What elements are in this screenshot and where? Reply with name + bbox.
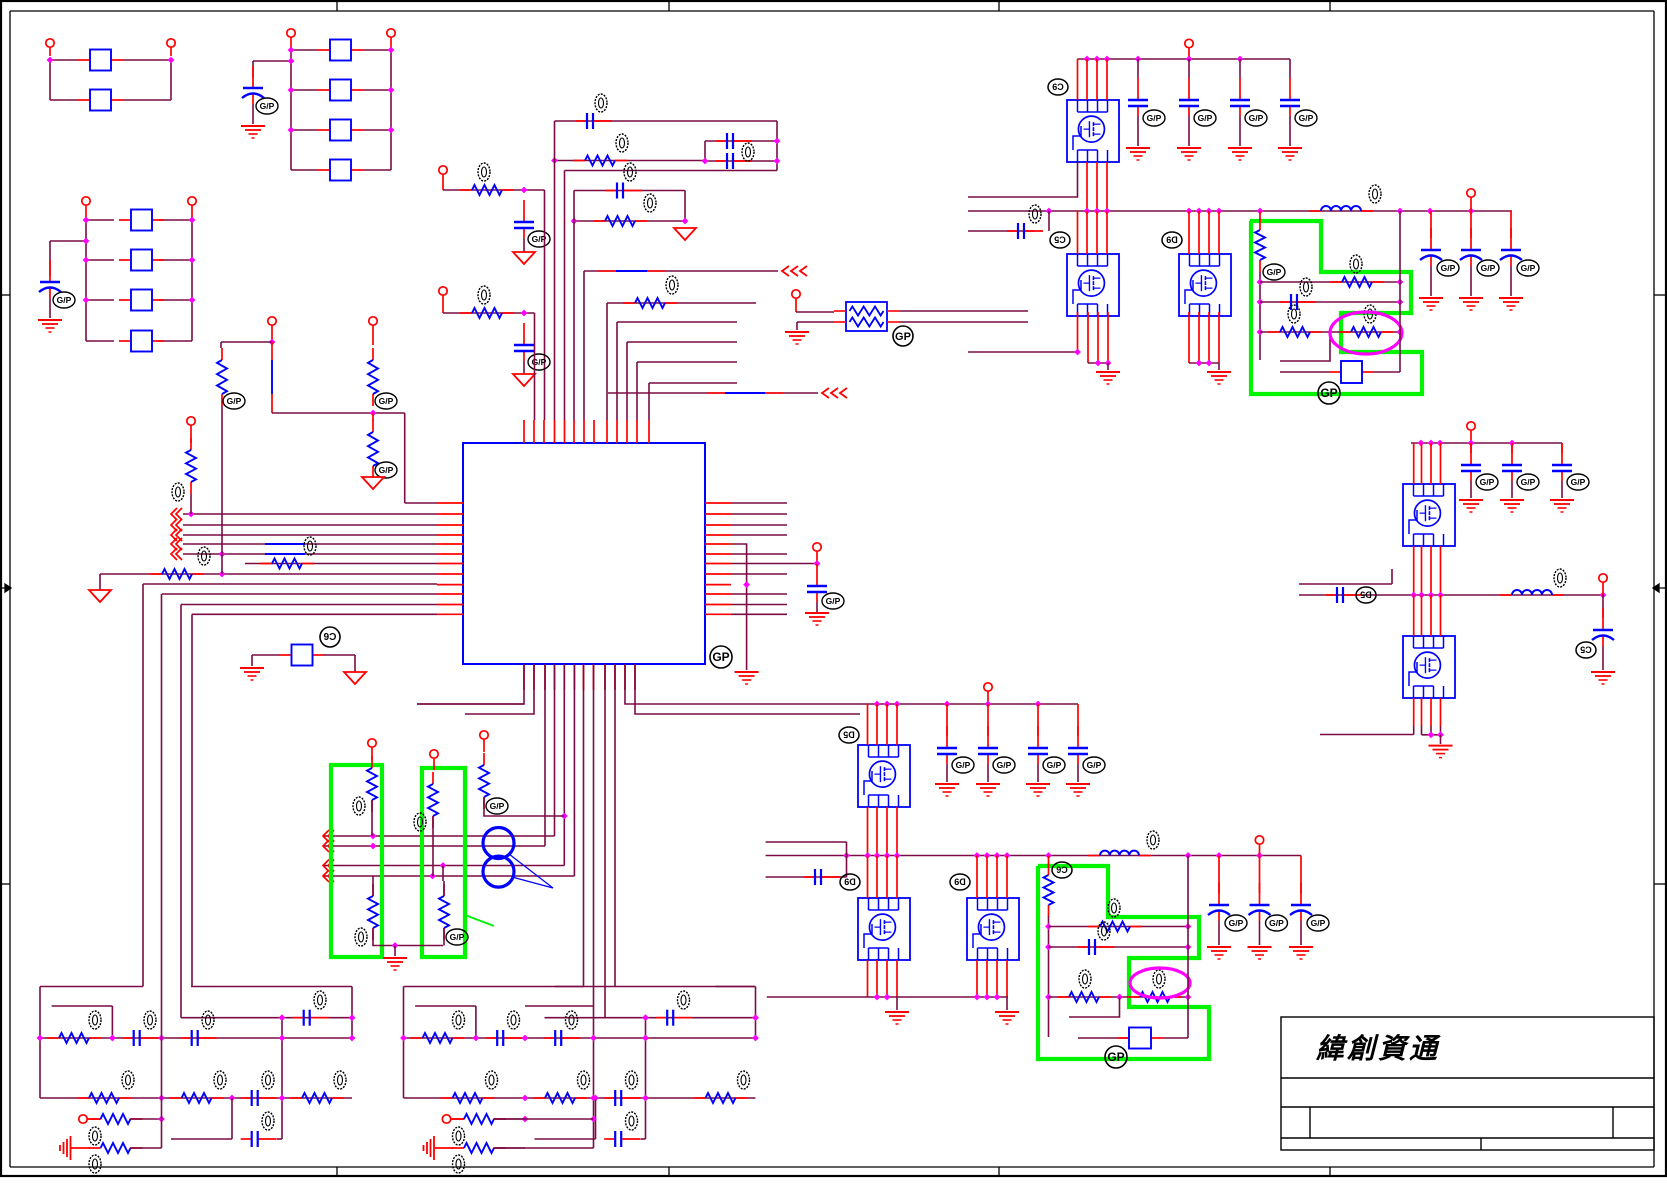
connector pin P14 [430, 750, 438, 758]
wire [142, 584, 144, 987]
wire [351, 987, 353, 1039]
wire [1430, 266, 1432, 296]
ground [1550, 499, 1574, 501]
ground [1289, 946, 1313, 948]
wire [291, 49, 318, 51]
resistor R14 [432, 772, 434, 784]
wire [705, 160, 777, 162]
label GP RP1 [893, 326, 913, 346]
highlight ellipse E2 [1130, 968, 1190, 998]
wire [39, 987, 41, 1099]
resistor R10 [372, 413, 374, 421]
junction [521, 187, 528, 194]
junction [874, 701, 881, 708]
wire [705, 140, 777, 142]
resistor R11 [221, 348, 223, 360]
junction [1045, 923, 1052, 930]
capacitor C30 [1218, 856, 1220, 894]
capacitor C25 [987, 704, 989, 736]
junction [1418, 440, 1425, 447]
ground [1026, 783, 1050, 785]
row5 [423, 1145, 425, 1151]
junction [522, 1116, 529, 1123]
ground [1177, 147, 1201, 149]
resistor R19 [1268, 331, 1280, 333]
wire [704, 141, 706, 161]
junction [47, 57, 54, 64]
resistor [694, 1097, 706, 1099]
capacitor [241, 1138, 252, 1140]
transistor Q2 [1067, 254, 1119, 316]
capacitor C7 [606, 190, 617, 192]
wire [49, 60, 51, 100]
wire [1218, 921, 1220, 945]
row3 [79, 1115, 87, 1123]
wire [253, 60, 291, 62]
svg-text:G/P: G/P [1299, 113, 1314, 123]
wire [1510, 266, 1512, 296]
ground [1459, 499, 1483, 501]
svg-text:G/P: G/P [1047, 760, 1062, 770]
wire [1077, 764, 1079, 782]
wire [192, 613, 437, 615]
capacitor C32 [1300, 856, 1302, 894]
svg-text:D9: D9 [954, 877, 966, 887]
capacitor C8 [523, 323, 525, 345]
wire [86, 299, 114, 301]
highlight ellipse E1 [1330, 312, 1402, 354]
ground [38, 319, 62, 321]
wire [191, 614, 193, 986]
svg-text:D5: D5 [843, 730, 855, 740]
wire [442, 866, 444, 882]
resistor R1 [573, 160, 585, 162]
ground [805, 612, 829, 614]
svg-text:C5: C5 [1580, 645, 1592, 655]
resistor R4 [460, 312, 472, 314]
resistor R15 [443, 884, 445, 896]
sheet zone arrow right [1653, 584, 1667, 592]
component X3 [1117, 1037, 1129, 1039]
wire [1189, 362, 1219, 364]
svg-text:GP: GP [712, 650, 729, 664]
ground [240, 667, 264, 669]
wire [731, 502, 787, 504]
junction [814, 560, 821, 567]
connector pin P19 [1467, 422, 1475, 430]
svg-text:G/P: G/P [1229, 918, 1244, 928]
svg-text:G/P: G/P [450, 932, 465, 942]
wire [494, 1147, 526, 1149]
wire [867, 704, 869, 745]
resistor R12 [371, 756, 373, 768]
junction [83, 238, 90, 245]
junction [521, 310, 528, 317]
capacitor C15 [1280, 301, 1291, 303]
capacitor C12 [1239, 59, 1241, 78]
svg-text:G/P: G/P [1521, 477, 1536, 487]
svg-text:GP: GP [1107, 1050, 1124, 1064]
junction [288, 47, 295, 54]
transistor Q1 [1067, 100, 1119, 162]
wire [1188, 116, 1190, 146]
wire [608, 392, 818, 394]
resistor R21 [1048, 856, 1050, 867]
junction [1196, 360, 1203, 367]
resistor [452, 1118, 464, 1120]
wire [555, 986, 756, 988]
detail pointer lines [509, 854, 553, 888]
wire [544, 190, 546, 420]
resistor R2 [460, 189, 472, 191]
wire [417, 703, 524, 705]
junction [1257, 279, 1264, 286]
wire [607, 302, 756, 304]
resistor R7 [150, 573, 162, 575]
ground [1228, 147, 1252, 149]
junction [1084, 56, 1091, 63]
wire [523, 361, 525, 374]
wire [1280, 332, 1330, 361]
wire [976, 856, 978, 899]
junction [1428, 731, 1435, 738]
IC U1 left pins [437, 502, 463, 504]
row2 wire [40, 1097, 352, 1099]
wire [1413, 595, 1415, 636]
wire [291, 129, 318, 131]
IC U1 right pins [705, 502, 731, 504]
capacitor C13 [1289, 59, 1291, 78]
wire [507, 986, 584, 988]
wire [606, 303, 608, 420]
ferrite bead FB10 [119, 340, 131, 342]
junction [219, 551, 226, 558]
ground [1278, 147, 1302, 149]
junction [1084, 208, 1091, 215]
sheet zone arrow left [0, 584, 11, 592]
junction [1397, 299, 1404, 306]
wire [415, 1005, 476, 1007]
capacitor C17 [1470, 211, 1472, 238]
highlight box H1 [331, 765, 382, 957]
ferrite bead FB7 [119, 219, 131, 221]
ferrite bead FB1 [78, 59, 90, 61]
capacitor [544, 1037, 555, 1039]
wire [766, 876, 847, 878]
junction [370, 410, 377, 417]
wire [987, 764, 989, 782]
wire [525, 1005, 594, 1007]
label GP X3 [1105, 1046, 1127, 1068]
junction [874, 994, 881, 1001]
svg-text:G/P: G/P [1521, 263, 1536, 273]
wire [403, 987, 405, 1099]
junction [370, 833, 377, 840]
title block [1281, 1017, 1654, 1150]
ground [735, 671, 759, 673]
ground [1126, 147, 1150, 149]
svg-text:C6: C6 [323, 630, 336, 641]
wire [645, 1018, 647, 1139]
ground [1006, 997, 1008, 1010]
wire [1280, 371, 1329, 373]
wire [417, 664, 524, 704]
wire [583, 271, 585, 420]
wire [1069, 997, 1120, 1017]
capacitor C26 [1037, 704, 1039, 736]
rowA wire [1260, 281, 1400, 283]
wire [494, 1147, 594, 1149]
capacitor C27 [1077, 704, 1079, 736]
ground [241, 125, 265, 127]
ferrite bead FB6 [318, 169, 330, 171]
wire [1299, 594, 1603, 596]
ground [344, 672, 366, 684]
power bus wire [867, 703, 1078, 705]
capacitor C20 [1511, 443, 1513, 453]
wire [291, 89, 318, 91]
capacitor [181, 1037, 192, 1039]
ground [1207, 946, 1231, 948]
connector pin P22 [1255, 836, 1263, 844]
resistor [290, 1097, 302, 1099]
junction [288, 58, 295, 65]
wire [565, 170, 778, 172]
svg-text:G/P: G/P [997, 760, 1012, 770]
wire [180, 605, 182, 1018]
detail circle B [483, 856, 514, 887]
capacitor C9 [816, 564, 818, 586]
wire [405, 502, 437, 504]
wire [324, 654, 355, 656]
wire [1137, 116, 1139, 146]
label Cb [320, 627, 340, 647]
ferrite bead FB3 [318, 49, 330, 51]
junction [522, 1095, 529, 1102]
highlight box H2 [422, 768, 465, 957]
wire [373, 928, 443, 946]
connector pin P3 [287, 29, 295, 37]
connector pin P11 [369, 317, 377, 325]
wire [766, 841, 847, 843]
svg-text:G/P: G/P [1087, 760, 1102, 770]
wire [1187, 856, 1189, 1039]
resistor pack RP1 [846, 302, 887, 331]
power bus wire [1078, 58, 1291, 60]
wire [544, 664, 546, 846]
junction [1116, 994, 1123, 1001]
svg-text:GP: GP [895, 331, 911, 343]
svg-text:G/P: G/P [1147, 113, 1162, 123]
resistor R5 [623, 302, 635, 304]
wire [443, 881, 445, 896]
wire [494, 1118, 526, 1120]
wire [684, 191, 686, 222]
transistor Q4 [1403, 484, 1455, 546]
ground [1499, 297, 1523, 299]
wire [1077, 59, 1079, 100]
wire [183, 513, 437, 515]
svg-text:G/P: G/P [1481, 263, 1496, 273]
connector pin P6 [188, 197, 196, 205]
wire [271, 342, 273, 360]
resistor [89, 1118, 101, 1120]
wire [946, 764, 948, 782]
wire [574, 220, 685, 222]
rowB wire [1260, 301, 1400, 303]
svg-text:D5: D5 [1360, 590, 1372, 600]
svg-text:G/P: G/P [379, 396, 394, 406]
net stub arrows [822, 388, 829, 398]
connector pin P20 [1599, 574, 1607, 582]
junction [1185, 944, 1192, 951]
junction [1045, 852, 1052, 859]
svg-text:G/P: G/P [1267, 267, 1282, 277]
junction [158, 1116, 165, 1123]
highlight path H3 [1250, 221, 1422, 394]
resistor R3 [593, 220, 605, 222]
ferrite bead FB9 [119, 299, 131, 301]
capacitor [293, 1017, 304, 1019]
wire [899, 321, 1028, 323]
svg-text:G/P: G/P [379, 465, 394, 475]
ground [1459, 297, 1483, 299]
wire [161, 594, 163, 1148]
connector pin P13 [368, 739, 376, 747]
wire [162, 593, 437, 595]
junction [37, 1035, 44, 1042]
wire [484, 797, 564, 816]
detail circle A [483, 828, 514, 859]
connector pin P10 [268, 317, 276, 325]
wire [767, 996, 1008, 998]
transistor Q8 [967, 898, 1019, 960]
junction [843, 852, 850, 859]
capacitor [604, 1138, 615, 1140]
ground [1066, 783, 1090, 785]
svg-text:G/P: G/P [1441, 263, 1456, 273]
wire [181, 604, 437, 606]
wire [272, 412, 405, 414]
svg-text:G/P: G/P [826, 596, 841, 606]
wire [716, 986, 756, 988]
wire [183, 543, 437, 545]
wire [220, 342, 222, 348]
junction [561, 813, 568, 820]
svg-text:G/P: G/P [1571, 477, 1586, 487]
capacitor C4 [716, 140, 727, 142]
wire [625, 664, 867, 704]
wire [583, 664, 585, 987]
capacitor C24 [946, 704, 948, 736]
wire [1413, 546, 1415, 595]
resistor [47, 1037, 59, 1039]
rowC wire [1260, 331, 1400, 333]
wire [86, 259, 114, 261]
wire [371, 800, 373, 836]
connector pin P16 [1185, 39, 1193, 47]
wire [1374, 371, 1400, 373]
junction [83, 217, 90, 224]
ground [976, 783, 1000, 785]
wire [100, 573, 437, 575]
wire [221, 406, 223, 574]
highlight path H4 [1038, 866, 1209, 1059]
capacitor C19 [1470, 443, 1472, 453]
capacitor C21 [1561, 443, 1563, 453]
ground [513, 374, 535, 386]
row4 wire [535, 1138, 596, 1140]
svg-text:G/P: G/P [1249, 113, 1264, 123]
capacitor C29 [1078, 946, 1089, 948]
wire [574, 190, 685, 192]
component X1 [280, 654, 292, 656]
wire [181, 1017, 352, 1019]
wire [221, 341, 272, 343]
main bus wire [766, 855, 1301, 857]
svg-text:G/P: G/P [57, 295, 72, 305]
row wire [1049, 926, 1189, 928]
wire [731, 544, 747, 670]
wire [1188, 211, 1190, 254]
wire [1422, 734, 1441, 736]
wire [1399, 211, 1401, 372]
wire [635, 664, 860, 714]
connector pin P1 [46, 39, 54, 47]
svg-text:緯創資通: 緯創資通 [1315, 1033, 1441, 1065]
ground [89, 590, 111, 602]
wire [252, 104, 254, 124]
wire [281, 1018, 283, 1139]
wire [130, 1147, 162, 1149]
wire [584, 270, 778, 272]
wire [323, 845, 545, 847]
resistor [77, 1097, 89, 1099]
capacitor [486, 1037, 497, 1039]
svg-text:G/P: G/P [227, 396, 242, 406]
inductor L2 [1500, 594, 1512, 596]
wire [648, 383, 650, 420]
wire [290, 50, 292, 170]
connector pin P18 [1467, 189, 1475, 197]
wire [183, 534, 437, 536]
wire [1413, 726, 1415, 735]
label GP U1 [710, 646, 732, 668]
wire [1078, 1037, 1129, 1039]
junction [392, 942, 399, 949]
wire [1511, 481, 1513, 498]
connector pin P8 [439, 287, 447, 295]
wire [899, 310, 1028, 312]
wire [1299, 583, 1392, 585]
wire [49, 298, 51, 318]
junction [590, 1035, 597, 1042]
junction [974, 852, 981, 859]
capacitor C23 [1602, 595, 1604, 618]
wire [86, 219, 114, 221]
junction [1074, 349, 1081, 356]
wire [1289, 116, 1291, 146]
wire [1077, 312, 1079, 352]
wire [1470, 481, 1472, 498]
junction [219, 571, 226, 578]
wire [1602, 646, 1604, 670]
wire [523, 238, 525, 252]
wire [99, 574, 101, 590]
wire [1163, 1037, 1188, 1039]
ground [1419, 297, 1443, 299]
capacitor C16 [1430, 211, 1432, 238]
